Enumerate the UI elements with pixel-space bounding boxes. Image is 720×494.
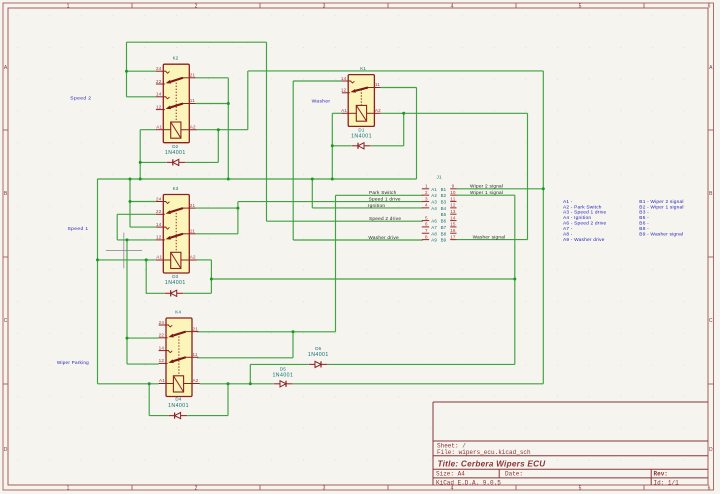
svg-text:10: 10: [450, 190, 456, 195]
svg-text:1: 1: [67, 486, 70, 492]
svg-text:Speed 2 drive: Speed 2 drive: [369, 216, 401, 221]
svg-text:4: 4: [425, 203, 428, 208]
svg-text:1N4001: 1N4001: [272, 373, 293, 379]
svg-text:1N4001: 1N4001: [165, 150, 186, 156]
svg-text:5: 5: [579, 486, 582, 492]
svg-text:A2 - Park Switch: A2 - Park Switch: [563, 204, 602, 210]
svg-text:A2: A2: [193, 378, 199, 383]
svg-text:D5: D5: [280, 366, 286, 371]
svg-text:14: 14: [341, 76, 347, 81]
svg-text:B2: B2: [441, 193, 447, 198]
svg-text:B5 -: B5 -: [639, 215, 649, 221]
svg-text:B6: B6: [441, 219, 447, 224]
svg-text:B3 -: B3 -: [639, 210, 649, 216]
svg-text:Washer signal: Washer signal: [473, 235, 506, 240]
svg-text:Washer drive: Washer drive: [368, 235, 399, 240]
svg-text:14: 14: [450, 215, 456, 220]
svg-text:24: 24: [159, 320, 165, 325]
svg-text:D1: D1: [358, 127, 364, 132]
svg-text:D: D: [4, 447, 8, 453]
svg-text:7: 7: [425, 228, 428, 233]
svg-text:1N4001: 1N4001: [168, 403, 189, 409]
svg-text:Speed 1: Speed 1: [68, 226, 89, 232]
svg-text:14: 14: [156, 222, 162, 227]
svg-text:A1: A1: [159, 378, 165, 383]
svg-text:A3 - Speed 1 drive: A3 - Speed 1 drive: [563, 210, 606, 216]
svg-text:A2: A2: [375, 108, 381, 113]
svg-text:1: 1: [67, 3, 70, 9]
svg-text:A2: A2: [190, 255, 196, 260]
svg-text:14: 14: [156, 92, 162, 97]
svg-text:6: 6: [708, 3, 711, 9]
svg-text:A7 -: A7 -: [563, 226, 573, 232]
svg-text:B6 -: B6 -: [639, 221, 649, 227]
svg-text:22: 22: [156, 209, 162, 214]
svg-text:22: 22: [159, 333, 165, 338]
svg-text:B1: B1: [441, 187, 447, 192]
svg-text:J1: J1: [437, 174, 442, 179]
svg-text:6: 6: [425, 222, 428, 227]
svg-text:12: 12: [156, 235, 162, 240]
svg-text:A9 - Washer drive: A9 - Washer drive: [563, 237, 605, 243]
svg-text:Ignition: Ignition: [368, 203, 385, 208]
svg-text:K3: K3: [173, 186, 179, 191]
svg-text:Title: Cerbera Wipers ECU: Title: Cerbera Wipers ECU: [438, 459, 547, 468]
svg-text:D: D: [709, 447, 713, 453]
svg-text:3: 3: [323, 3, 326, 9]
svg-text:KiCad E.D.A. 9.0.5: KiCad E.D.A. 9.0.5: [436, 479, 501, 486]
svg-text:B1 - Wiper 2 signal: B1 - Wiper 2 signal: [639, 199, 683, 205]
svg-text:A1: A1: [156, 255, 162, 260]
svg-text:D3: D3: [172, 274, 178, 279]
svg-text:A4 - Ignition: A4 - Ignition: [563, 215, 591, 221]
svg-text:A2: A2: [190, 124, 196, 129]
svg-text:A1 -: A1 -: [563, 199, 573, 205]
svg-text:B9: B9: [441, 238, 447, 243]
svg-text:D6: D6: [315, 346, 321, 351]
svg-text:Park Switch: Park Switch: [369, 190, 397, 195]
svg-text:11: 11: [190, 229, 195, 234]
svg-text:22: 22: [156, 79, 162, 84]
svg-text:A1: A1: [341, 108, 347, 113]
svg-text:B8: B8: [441, 231, 447, 236]
svg-text:13: 13: [450, 209, 456, 214]
svg-text:1N4001: 1N4001: [351, 134, 372, 140]
svg-text:A6 - Speed 2 drive: A6 - Speed 2 drive: [563, 221, 606, 227]
svg-text:A9: A9: [431, 238, 437, 243]
svg-text:3: 3: [323, 486, 326, 492]
svg-text:C: C: [4, 318, 8, 324]
svg-text:K2: K2: [173, 56, 179, 61]
svg-text:21: 21: [190, 73, 196, 78]
svg-text:A6: A6: [431, 219, 437, 224]
svg-text:16: 16: [450, 228, 456, 233]
svg-text:B5: B5: [441, 212, 447, 217]
svg-text:4: 4: [451, 3, 454, 9]
svg-text:B2 - Wiper 1 signal: B2 - Wiper 1 signal: [639, 204, 683, 210]
svg-text:Speed 1 drive: Speed 1 drive: [369, 197, 401, 202]
svg-text:11: 11: [190, 98, 195, 103]
svg-text:D2: D2: [172, 144, 178, 149]
svg-text:2: 2: [195, 486, 198, 492]
svg-text:A4: A4: [431, 206, 437, 211]
svg-text:Size: A4: Size: A4: [436, 471, 465, 478]
svg-text:A1: A1: [431, 187, 437, 192]
svg-text:1: 1: [425, 184, 428, 189]
svg-text:6: 6: [708, 486, 711, 492]
svg-text:11: 11: [450, 196, 455, 201]
svg-text:A8 -: A8 -: [563, 231, 573, 237]
svg-text:B8 -: B8 -: [639, 226, 649, 232]
svg-text:B9 - Washer signal: B9 - Washer signal: [639, 231, 683, 237]
svg-text:K1: K1: [360, 66, 366, 71]
svg-text:5: 5: [579, 3, 582, 9]
svg-text:B4: B4: [441, 206, 447, 211]
svg-text:12: 12: [450, 203, 456, 208]
svg-text:2: 2: [425, 190, 428, 195]
svg-text:14: 14: [159, 345, 165, 350]
svg-text:17: 17: [450, 234, 456, 239]
svg-text:K4: K4: [175, 310, 181, 315]
svg-text:D4: D4: [175, 397, 181, 402]
svg-text:B7: B7: [441, 225, 447, 230]
svg-text:12: 12: [156, 104, 162, 109]
svg-text:15: 15: [450, 222, 456, 227]
svg-text:Wiper 2 signal: Wiper 2 signal: [470, 184, 503, 189]
svg-text:2: 2: [195, 3, 198, 9]
svg-text:9: 9: [452, 184, 455, 189]
svg-text:4: 4: [451, 486, 454, 492]
svg-text:File: wipers_ecu.kicad_sch: File: wipers_ecu.kicad_sch: [437, 449, 531, 456]
svg-text:C: C: [709, 318, 713, 324]
svg-text:11: 11: [375, 82, 380, 87]
svg-text:21: 21: [190, 203, 196, 208]
svg-text:Washer: Washer: [312, 99, 331, 105]
svg-text:8: 8: [425, 234, 428, 239]
svg-text:24: 24: [156, 196, 162, 201]
svg-text:A1: A1: [156, 124, 162, 129]
svg-text:A8: A8: [431, 231, 437, 236]
svg-text:Wiper Parking: Wiper Parking: [57, 360, 89, 365]
svg-text:5: 5: [425, 215, 428, 220]
svg-text:Wiper 1 signal: Wiper 1 signal: [470, 190, 503, 195]
svg-text:11: 11: [193, 352, 198, 357]
svg-text:1N4001: 1N4001: [165, 280, 186, 286]
svg-text:24: 24: [156, 66, 162, 71]
svg-text:Id: 1/1: Id: 1/1: [654, 479, 680, 486]
svg-text:B3: B3: [441, 200, 447, 205]
svg-text:21: 21: [193, 326, 199, 331]
svg-text:Date:: Date:: [505, 471, 523, 478]
svg-text:A3: A3: [431, 200, 437, 205]
svg-text:12: 12: [341, 88, 347, 93]
svg-text:Rev:: Rev:: [654, 471, 668, 478]
svg-text:A2: A2: [431, 193, 437, 198]
svg-text:1N4001: 1N4001: [308, 352, 329, 358]
svg-text:3: 3: [425, 196, 428, 201]
svg-text:A7: A7: [431, 225, 437, 230]
svg-text:Speed 2: Speed 2: [70, 96, 91, 102]
svg-text:12: 12: [159, 358, 165, 363]
